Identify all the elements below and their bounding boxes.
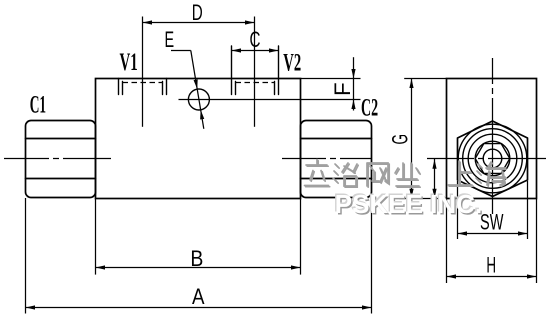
leader E horizontal segment <box>171 50 191 52</box>
port V1 left inner wall <box>122 82 124 95</box>
char 业 <box>396 164 420 187</box>
char 阀 <box>368 164 389 187</box>
port V2 centerline <box>254 17 256 127</box>
thread circle B <box>468 134 517 183</box>
dimension D line <box>143 22 255 24</box>
dimension C line <box>232 50 279 52</box>
centerline of hex cap C1 (bore axis left) <box>4 158 111 160</box>
centerline of hex cap C2 (bore axis right) <box>282 158 372 160</box>
dimension H line <box>447 276 537 278</box>
dimension D arrow left <box>143 20 153 24</box>
svg-text:B: B <box>190 246 203 271</box>
dimension A extension left <box>25 198 27 314</box>
svg-text:D: D <box>192 0 203 25</box>
char 立 <box>306 161 330 187</box>
hex plug hexagon (end view) <box>458 121 528 197</box>
dimension H extension right <box>536 199 538 283</box>
dimension B arrow left <box>96 265 106 269</box>
valve body rectangle (side view) <box>96 79 301 199</box>
thread circle A <box>463 129 523 189</box>
port V2 hidden thread dashed line <box>236 82 275 84</box>
dimension H arrow left <box>447 274 457 278</box>
dimension A arrow right <box>362 305 372 309</box>
hex chamfer circle <box>458 124 527 193</box>
svg-text:PSKEE INC.: PSKEE INC. <box>335 189 482 219</box>
dimension B extension left (body left edge extended) <box>95 199 97 275</box>
svg-text:E: E <box>165 27 175 52</box>
watermark latin row PSKEE INC. <box>333 188 483 221</box>
port V1 centerline <box>142 17 144 127</box>
dimension SW extension right <box>527 181 529 239</box>
end view vertical centerline <box>492 58 494 214</box>
inner bore circle <box>483 149 502 168</box>
dimension G line <box>411 79 413 199</box>
svg-text:A: A <box>192 284 205 309</box>
port V1 right inner wall <box>162 82 164 95</box>
dimension G arrow top <box>409 79 413 89</box>
svg-text:G: G <box>387 134 412 145</box>
dimension SW arrow left <box>458 231 468 235</box>
hex end cap C2 (right, side view) <box>301 121 372 198</box>
rect bottom edge extension (G reference) <box>399 198 447 200</box>
dimension D arrow right <box>245 20 255 24</box>
dimension B arrow right <box>291 265 301 269</box>
svg-text:H: H <box>486 252 496 277</box>
body top edge extension (F) <box>301 78 361 80</box>
watermark chinese characters row <box>305 160 507 188</box>
dimension A arrow left <box>26 305 36 309</box>
small center-to-bottom dimension line <box>434 159 436 199</box>
dimension F arrow top (points down) <box>351 69 355 79</box>
svg-text:C2: C2 <box>361 94 378 121</box>
char 上 <box>449 162 473 186</box>
port V2 right outer wall + C extension <box>278 46 280 95</box>
svg-text:V1: V1 <box>120 49 138 76</box>
dimension F line <box>353 57 355 110</box>
dimension A line <box>26 307 372 309</box>
dimension SW line <box>458 233 528 235</box>
char 海 <box>477 163 506 186</box>
char 洛 <box>334 164 358 187</box>
small dimension arrow bottom <box>432 189 436 199</box>
dimension C arrow right <box>269 48 279 52</box>
svg-text:C: C <box>250 27 261 52</box>
end view rectangle <box>447 79 537 199</box>
dimension H extension left <box>446 199 448 283</box>
svg-text:V2: V2 <box>283 50 301 77</box>
dimension SW arrow right <box>518 231 528 235</box>
leader E diagonal line through port E circle <box>191 51 204 129</box>
hex end cap C1 (left, side view) <box>26 121 96 198</box>
small dimension arrow top <box>432 159 436 169</box>
internal hex socket <box>475 144 510 174</box>
port E horizontal centerline / F extension line <box>179 99 361 101</box>
svg-text:C1: C1 <box>30 91 46 118</box>
dimension C arrow left <box>232 48 242 52</box>
hex C2 face lines <box>301 139 372 179</box>
leader E arrow lower (points up at circle bottom) <box>200 110 204 120</box>
port V2 left outer wall + C extension <box>231 46 233 95</box>
port E circle <box>188 89 209 110</box>
hex C1 face lines <box>26 139 96 179</box>
dimension H arrow right <box>527 274 537 278</box>
dimension B extension right <box>300 199 302 275</box>
port V1 right outer wall <box>166 79 168 95</box>
dimension F arrow bottom (points up) <box>351 100 355 110</box>
dimension B line <box>96 267 301 269</box>
port V1 hidden thread dashed line <box>123 82 163 84</box>
dimension G arrow bottom <box>409 189 413 199</box>
port V1 left outer wall <box>118 79 120 95</box>
svg-text:F: F <box>330 82 355 96</box>
port V2 right inner wall <box>274 82 276 95</box>
dimension A extension right <box>371 198 373 314</box>
dimension G extension top (rect top extended) <box>404 78 446 80</box>
socket circle <box>475 141 510 176</box>
end view horizontal centerline <box>427 158 546 160</box>
leader E arrow upper (points down at circle top) <box>194 79 198 89</box>
port V2 left inner wall <box>235 82 237 95</box>
dimension SW extension left <box>457 181 459 239</box>
